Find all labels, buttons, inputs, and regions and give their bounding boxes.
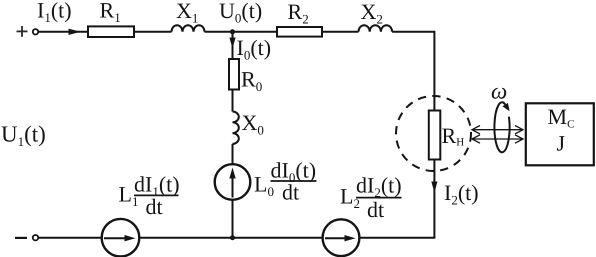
node U0 dot [230, 29, 235, 34]
resistor R1 [88, 26, 134, 37]
bottom rail wire right [359, 237, 435, 239]
shaft double arrows [472, 126, 523, 144]
wire RH to bottom rail with current arrow I2 [433, 160, 435, 238]
source L1 circle with right arrow [102, 219, 140, 257]
svg-text:ω: ω [491, 79, 507, 104]
svg-text:J: J [557, 130, 566, 155]
wire R2 to X2 [322, 31, 359, 33]
resistor R2 [277, 27, 322, 37]
svg-text:I0(t): I0(t) [237, 35, 272, 63]
terminal node bottom [33, 235, 38, 240]
svg-text:U1(t): U1(t) [1, 122, 46, 150]
plus terminal sign [17, 26, 28, 37]
svg-text:dt: dt [282, 180, 299, 205]
wire input with current arrow I1 [39, 31, 89, 33]
minus terminal sign [15, 237, 27, 239]
inductor X1 [172, 25, 205, 32]
rotation arrow arc [494, 102, 509, 152]
junction dot bottom [230, 235, 235, 240]
svg-text:dt: dt [146, 194, 163, 219]
bottom rail wire middle [139, 237, 322, 239]
source L0 circle with up arrow [215, 164, 251, 200]
wire L0 to bottom rail [232, 200, 234, 238]
terminal node top [33, 29, 38, 34]
wire R0 to X0 [232, 90, 234, 112]
bottom rail wire left [39, 237, 102, 239]
wire X0 to L0 source [232, 144, 234, 165]
load resistor RH [429, 111, 441, 160]
current arrow I0 [232, 34, 234, 59]
wire X1 to node [205, 31, 278, 33]
svg-text:I2(t): I2(t) [444, 180, 479, 208]
wire R1 to X1 [134, 31, 172, 33]
resistor R0 [229, 59, 239, 90]
inductor X2 [359, 25, 393, 32]
wire X2 to right corner and down [392, 32, 434, 111]
svg-text:U0(t): U0(t) [219, 0, 262, 26]
inductor X0 [233, 112, 239, 144]
svg-text:I1(t): I1(t) [37, 0, 72, 25]
dashed rotor circle [396, 96, 471, 171]
source L2 circle with right arrow [323, 219, 360, 256]
svg-text:dt: dt [367, 197, 384, 222]
motor box Mc J [526, 103, 594, 165]
